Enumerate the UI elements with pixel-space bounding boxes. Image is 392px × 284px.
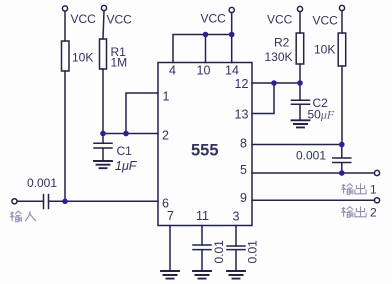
- svg-text:13: 13: [235, 108, 249, 122]
- svg-text:0.001: 0.001: [296, 149, 326, 163]
- ground (pin3): [227, 271, 245, 279]
- wire pin5 to output1: [252, 172, 374, 174]
- svg-text:1: 1: [370, 183, 377, 197]
- net label 输入 (input): [10, 211, 36, 222]
- svg-text:4: 4: [169, 64, 176, 78]
- wire pin8: [252, 144, 342, 146]
- svg-text:1μF: 1μF: [115, 159, 138, 173]
- wire pin1 loop: [126, 93, 158, 134]
- svg-text:0.01: 0.01: [246, 240, 260, 264]
- svg-text:10K: 10K: [72, 51, 93, 65]
- VCC terminal (left 2): [101, 5, 106, 10]
- svg-text:130K: 130K: [265, 50, 293, 64]
- svg-text:10: 10: [197, 64, 211, 78]
- wire: [64, 71, 66, 201]
- wire pin2 to R1/C1 node: [103, 133, 158, 135]
- VCC terminal (center): [229, 7, 234, 12]
- junction node (10K/input): [62, 199, 68, 205]
- input terminal: [12, 199, 17, 204]
- svg-text:1M: 1M: [111, 56, 128, 70]
- wire: [341, 11, 343, 33]
- junction node (pin12/pin13): [271, 80, 277, 86]
- ground (C1): [94, 161, 112, 168]
- ground (pin7): [161, 271, 179, 279]
- svg-text:0.001: 0.001: [27, 176, 57, 190]
- svg-text:3: 3: [233, 210, 240, 224]
- svg-text:10K: 10K: [314, 43, 335, 57]
- svg-text:9: 9: [240, 191, 247, 205]
- wire: [102, 69, 104, 134]
- wire pin7 down: [169, 226, 171, 272]
- output2 terminal: [374, 198, 379, 203]
- svg-text:VCC: VCC: [71, 12, 97, 26]
- wire top bus to pins 4,10,14: [173, 35, 232, 63]
- ground (pin11): [193, 271, 211, 279]
- net label 输出2 (output 2): [341, 206, 377, 220]
- output1 terminal: [374, 170, 379, 175]
- VCC terminal (right 2): [339, 5, 344, 10]
- wire pin9 to output2: [252, 199, 374, 201]
- resistor 10K (right): [338, 33, 346, 66]
- junction node (top bus / pin10): [203, 32, 209, 38]
- svg-text:C1: C1: [117, 144, 133, 158]
- wire: [17, 200, 43, 202]
- net label 输出1 (output 1): [341, 183, 377, 197]
- svg-text:5: 5: [240, 163, 247, 177]
- capacitor 0.01 (pin3): [227, 246, 245, 271]
- svg-text:2: 2: [162, 129, 169, 143]
- wire: [341, 66, 343, 145]
- wire: [103, 11, 104, 39]
- wire VCC center down: [231, 13, 233, 35]
- wire pin12: [252, 82, 300, 84]
- svg-text:11: 11: [196, 209, 209, 223]
- wire: [64, 11, 66, 41]
- junction node (R2/C2): [297, 80, 303, 86]
- junction node (pin1/pin2): [123, 131, 129, 137]
- svg-text:12: 12: [235, 77, 249, 91]
- svg-text:555: 555: [191, 142, 219, 160]
- resistor 10K (left): [62, 41, 70, 71]
- junction node (R1/C1/pin2): [100, 131, 106, 137]
- capacitor 0.001 (right): [333, 145, 351, 174]
- svg-text:VCC: VCC: [313, 14, 339, 28]
- svg-text:7: 7: [167, 209, 174, 223]
- svg-text:14: 14: [225, 64, 239, 78]
- wire pin13 riser: [252, 83, 274, 114]
- VCC terminal (right 1): [297, 6, 302, 11]
- svg-text:2: 2: [370, 206, 377, 220]
- svg-text:R2: R2: [274, 36, 290, 50]
- svg-text:50μF: 50μF: [308, 108, 335, 122]
- junction node (top bus / pin14): [229, 32, 235, 38]
- wire pin3 down: [235, 226, 237, 247]
- junction node (10K/pin8): [339, 142, 345, 148]
- svg-text:8: 8: [240, 137, 247, 151]
- wire pin11 down: [201, 226, 203, 246]
- svg-text:VCC: VCC: [201, 12, 227, 26]
- capacitor 0.001 (input): [44, 195, 49, 209]
- wire: [299, 64, 301, 83]
- VCC terminal (left 1): [62, 6, 67, 11]
- svg-text:VCC: VCC: [107, 13, 133, 27]
- capacitor C2: [292, 83, 310, 120]
- svg-text:1: 1: [163, 90, 170, 104]
- resistor R2: [296, 33, 304, 64]
- svg-text:VCC: VCC: [267, 13, 293, 27]
- wire: [299, 12, 301, 33]
- resistor R1: [100, 39, 107, 69]
- capacitor 0.01 (pin11): [193, 245, 211, 271]
- svg-text:0.01: 0.01: [212, 240, 226, 264]
- capacitor C1: [94, 134, 112, 162]
- IC U1 555 body: [158, 63, 252, 226]
- wire input to pin6: [49, 200, 159, 202]
- junction node (cap/pin5): [339, 170, 345, 176]
- ground (C2): [292, 120, 310, 127]
